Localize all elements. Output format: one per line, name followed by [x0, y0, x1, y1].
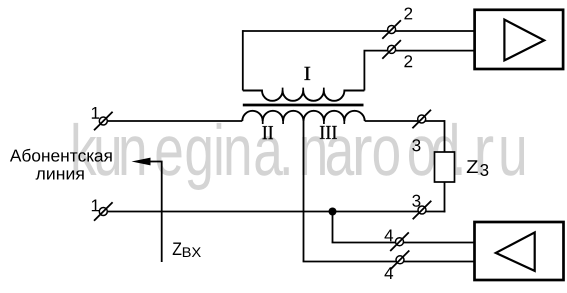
- wire upper subscriber line: [99, 120, 242, 122]
- label Z3: [467, 160, 478, 173]
- wire left vertical of winding I loop: [242, 30, 244, 90]
- terminal 4 lower: [396, 256, 404, 264]
- wire corner down to resistor Z3: [444, 120, 446, 152]
- winding II III cusp ticks: [263, 121, 345, 125]
- wire junction down: [332, 212, 334, 243]
- wire junction branch to lower box: [332, 242, 475, 244]
- wire center tap to lower box: [303, 261, 475, 263]
- wire winding III to resistor corner: [365, 120, 445, 122]
- terminal 1 upper: [99, 117, 107, 125]
- resistor Z3: [435, 152, 455, 182]
- wire right vertical of winding I loop: [363, 51, 365, 91]
- arrow to subscriber line: [150, 162, 162, 263]
- label III: [320, 126, 337, 139]
- wire lower right of winding I to box: [364, 50, 475, 52]
- winding II (3 bumps up): [242, 111, 303, 121]
- wire lower subscriber line: [99, 211, 445, 213]
- label 1 upper: [92, 107, 99, 119]
- terminal 2 upper: [388, 26, 396, 34]
- winding I cusp ticks: [283, 88, 324, 91]
- label 3 upper: [412, 139, 420, 151]
- amplifier triangle bottom: [496, 232, 535, 271]
- label II: [263, 126, 274, 139]
- winding III (3 bumps up): [304, 111, 365, 121]
- wire center tap down: [303, 121, 305, 262]
- terminal 4 upper: [396, 238, 404, 246]
- label I: [304, 67, 310, 80]
- wire top of winding I loop to box: [243, 30, 475, 32]
- watermark kunegin narod ru: [74, 123, 525, 190]
- label 3 lower: [412, 195, 420, 207]
- amplifier box top: [475, 10, 563, 69]
- label 4 upper: [385, 229, 394, 241]
- label Abonentskaya liniya: [10, 149, 112, 162]
- amplifier triangle top: [504, 20, 544, 61]
- terminal 2 lower: [388, 45, 396, 53]
- terminal 3 lower: [418, 206, 426, 214]
- terminal 1 lower: [99, 208, 107, 216]
- label 4 lower: [385, 267, 394, 279]
- node junction dot: [329, 208, 337, 216]
- transformer core: [243, 104, 364, 107]
- label 2 lower: [404, 55, 412, 67]
- label 2 upper: [404, 7, 412, 19]
- wire resistor bottom to corner: [444, 182, 446, 212]
- amplifier box bottom: [475, 222, 564, 280]
- terminal 3 upper: [418, 115, 426, 123]
- label 1 lower: [92, 200, 99, 212]
- winding I (primary, 4 bumps down): [243, 91, 365, 101]
- label Z BX: [173, 242, 182, 255]
